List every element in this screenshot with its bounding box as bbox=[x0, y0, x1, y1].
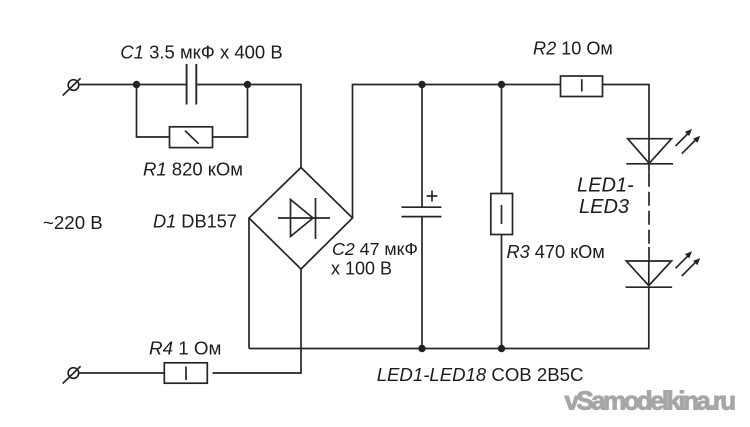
svg-text:D1 DB157: D1 DB157 bbox=[153, 212, 237, 232]
svg-text:R3 470 кОм: R3 470 кОм bbox=[507, 242, 605, 262]
wire: R4 to terminal X2 bbox=[79, 372, 165, 374]
svg-text:vSamodelkina.ru: vSamodelkina.ru bbox=[565, 386, 736, 416]
svg-text:~220 В: ~220 В bbox=[43, 212, 103, 233]
resistor R1 bbox=[170, 127, 213, 148]
wire: R2 to LED1 anode bbox=[603, 85, 650, 140]
wire: R1 to node B bbox=[213, 85, 248, 138]
wire: node A down to R1 bbox=[137, 85, 170, 138]
wire: LED1 cathode stub bbox=[648, 164, 650, 173]
resistor R2 bbox=[561, 76, 603, 97]
wire: bottom rail bbox=[249, 348, 649, 350]
wire: terminal X1 to node A bbox=[79, 84, 137, 86]
LED1 light arrows bbox=[676, 129, 701, 154]
wire: to LED2 anode bbox=[648, 247, 650, 261]
capacitor C2 bbox=[402, 191, 442, 217]
LED2 light arrows bbox=[676, 251, 701, 276]
wire: node D down to R3 bbox=[501, 85, 503, 194]
resistor R3 bbox=[491, 194, 513, 235]
svg-text:R4 1 Ом: R4 1 Ом bbox=[149, 337, 221, 358]
wire: C1 right plate to node B bbox=[197, 84, 248, 86]
svg-text:LED1-LED18 COB 2B5C: LED1-LED18 COB 2B5C bbox=[377, 364, 584, 385]
wire: node B to bridge AC top bbox=[248, 85, 302, 168]
svg-text:x 100 В: x 100 В bbox=[331, 259, 392, 279]
wire: bridge - output down to bottom rail bbox=[248, 218, 250, 349]
node F (R3 bottom junction) bbox=[498, 345, 505, 352]
terminal X2 (neutral input) bbox=[63, 366, 81, 383]
wire: R3 down to bottom rail bbox=[501, 235, 503, 349]
wire: bridge + output up to top rail and right to R2 bbox=[353, 85, 561, 219]
node D (R3 top junction) bbox=[498, 81, 505, 88]
wire: bridge AC bottom down and left to R4 bbox=[213, 269, 302, 373]
wire: C2 down to bottom rail bbox=[421, 217, 423, 349]
node E (C2 bottom junction) bbox=[418, 345, 425, 352]
wire: LED2 cathode down to bottom rail bbox=[648, 287, 650, 349]
dashed wire: LED chain continuation bbox=[648, 173, 650, 248]
wire: node C down to C2 bbox=[421, 85, 423, 208]
capacitor C1 bbox=[187, 64, 197, 105]
terminal X1 (line input) bbox=[63, 78, 81, 95]
svg-text:R1 820 кОм: R1 820 кОм bbox=[143, 158, 243, 179]
node C (C2 top junction) bbox=[418, 81, 425, 88]
node B (C1/R1 right junction) bbox=[244, 81, 251, 88]
resistor R4 bbox=[164, 363, 207, 383]
bridge rectifier D1 bbox=[249, 168, 353, 270]
wire: node A to C1 left plate bbox=[137, 84, 187, 86]
svg-text:R2 10 Ом: R2 10 Ом bbox=[533, 38, 613, 58]
LED LED2 bbox=[626, 261, 673, 287]
svg-text:LED1-: LED1- bbox=[577, 175, 634, 197]
node A (C1/R1 left junction) bbox=[133, 81, 140, 88]
LED LED1 bbox=[626, 139, 673, 164]
svg-text:C1 3.5 мкФ x 400 В: C1 3.5 мкФ x 400 В bbox=[120, 42, 282, 63]
svg-text:C2 47 мкФ: C2 47 мкФ bbox=[332, 239, 418, 259]
svg-text:LED3: LED3 bbox=[579, 196, 629, 218]
